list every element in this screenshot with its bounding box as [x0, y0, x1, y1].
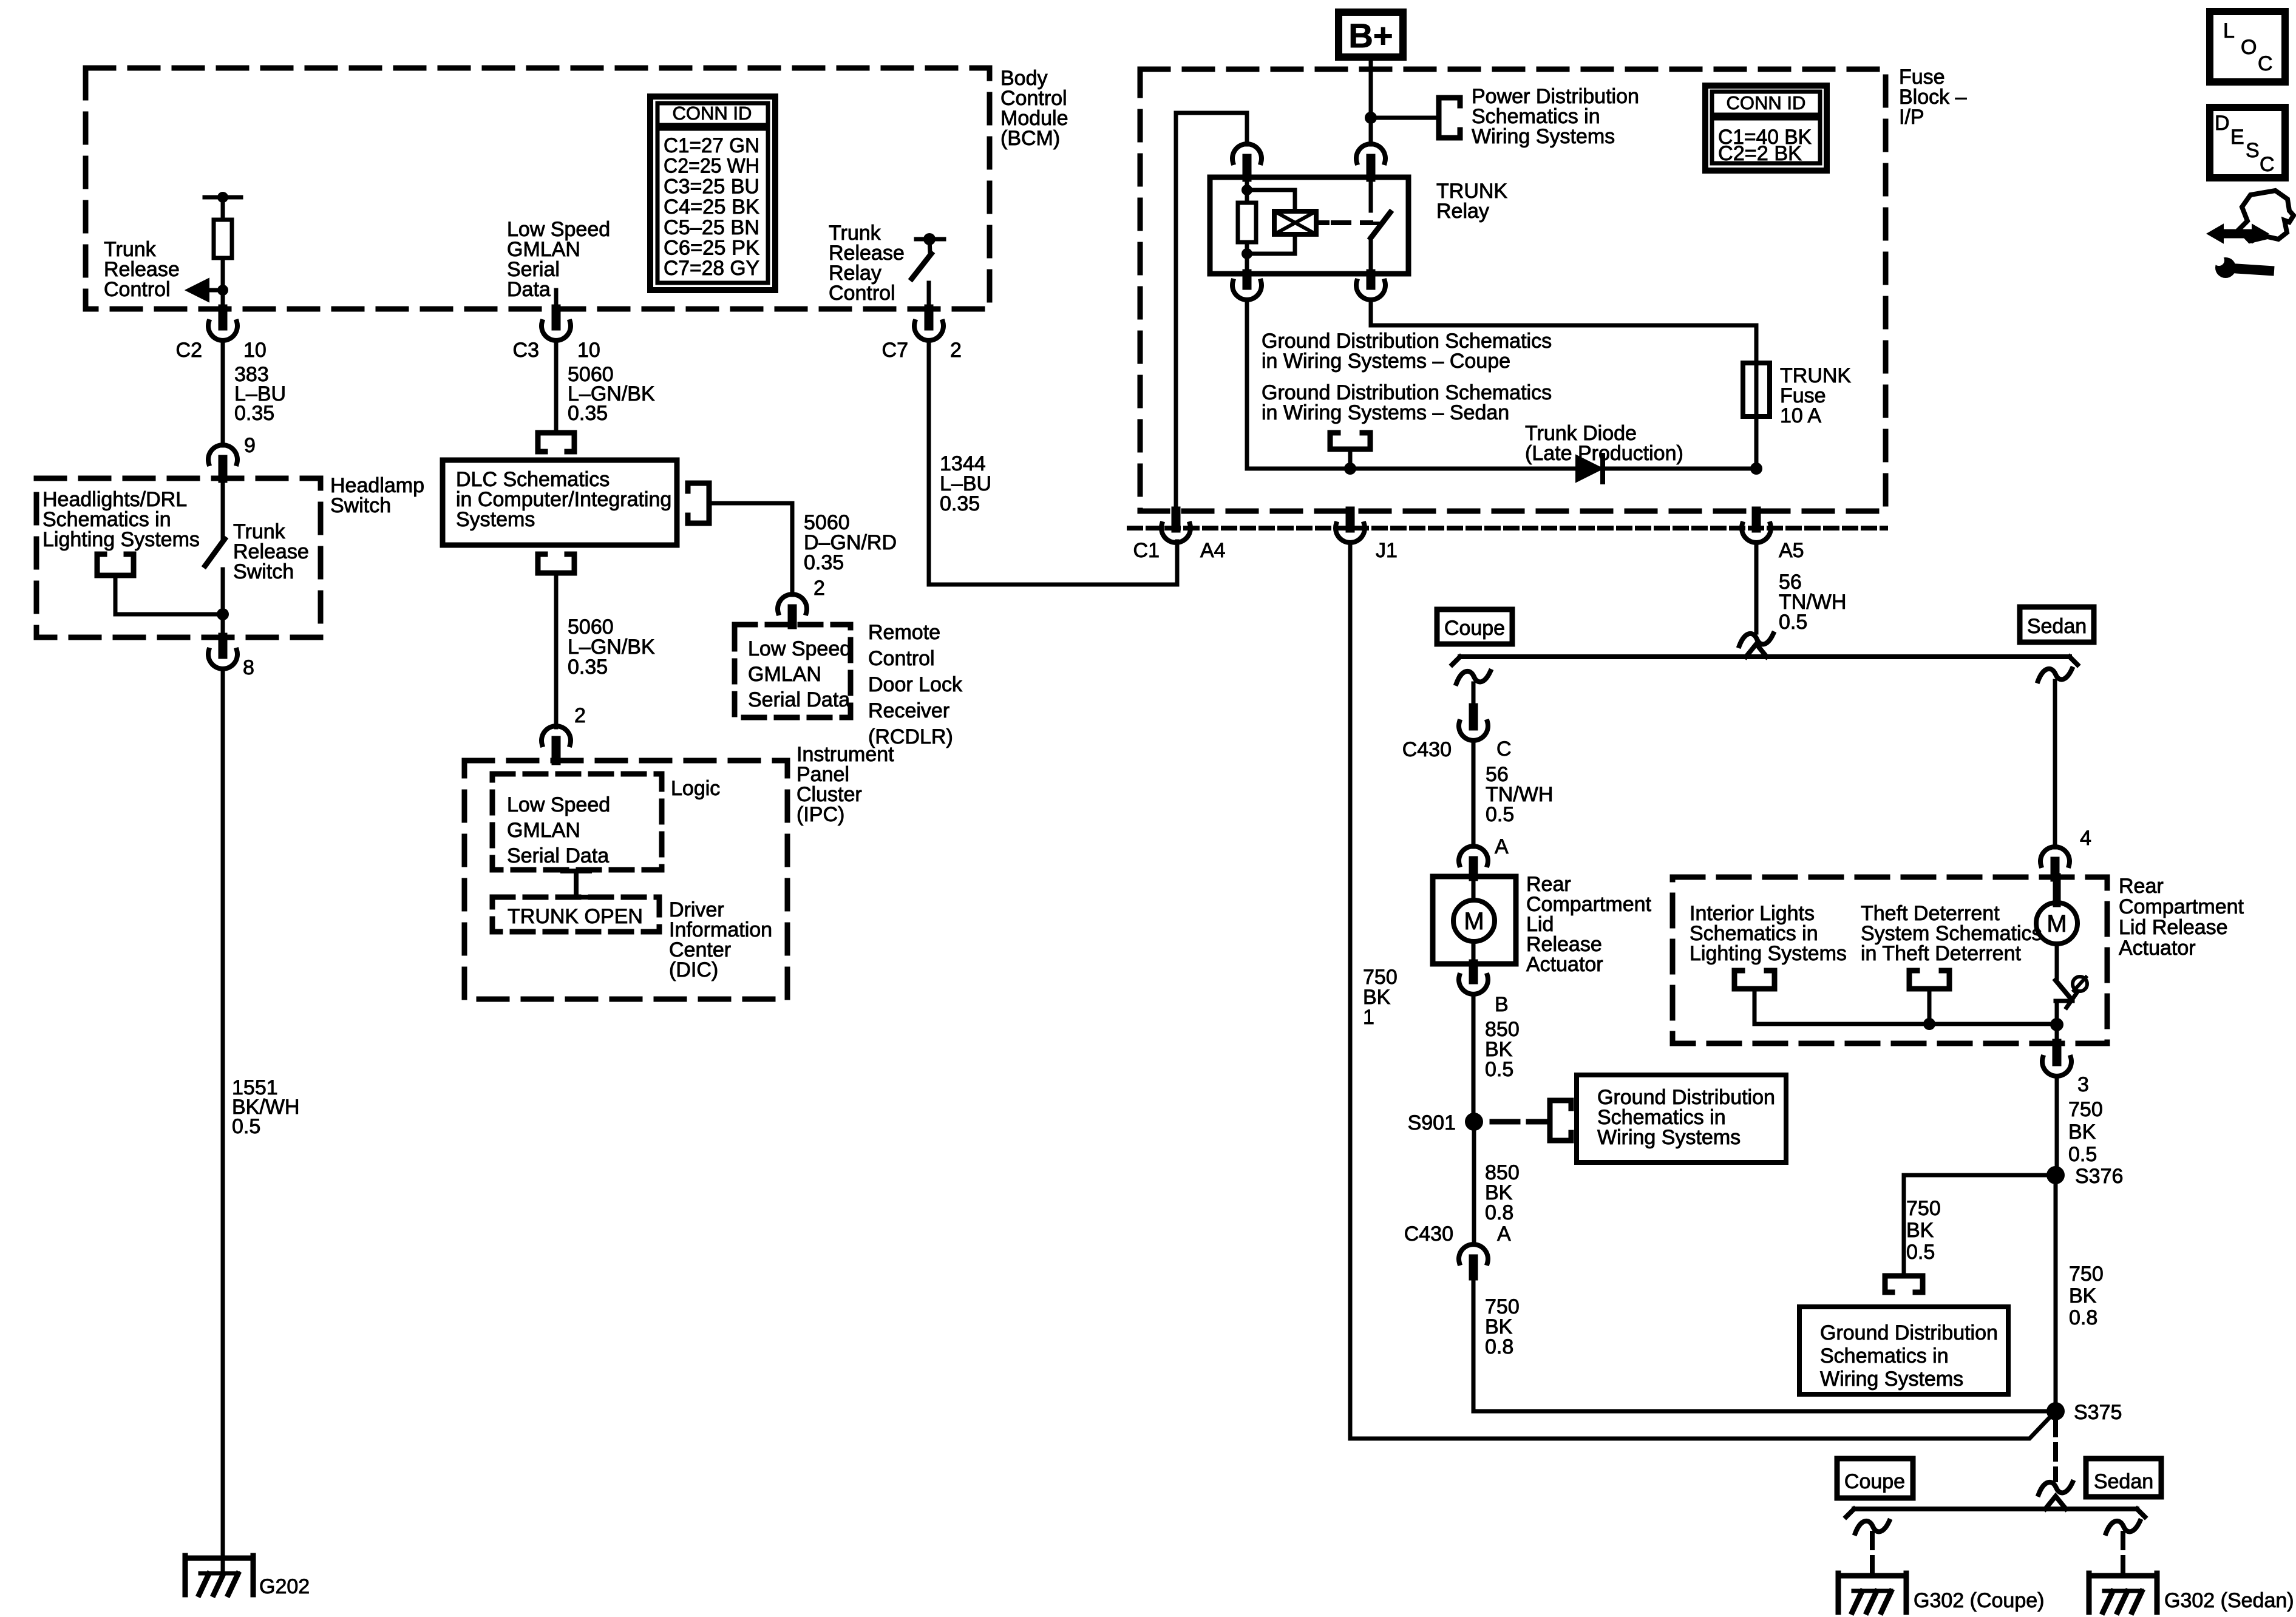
relay linkage (mechanical)	[1316, 220, 1327, 225]
svg-text:G202: G202	[259, 1575, 310, 1598]
svg-text:A: A	[1497, 1222, 1511, 1246]
svg-text:4: 4	[2080, 827, 2091, 850]
svg-text:Actuator: Actuator	[1526, 953, 1603, 976]
svg-text:S376: S376	[2075, 1165, 2123, 1188]
svg-text:CONN ID: CONN ID	[673, 103, 752, 124]
wire: theft deterrent stem	[1927, 989, 1932, 1024]
svg-text:A: A	[1495, 835, 1509, 858]
svg-text:750: 750	[2069, 1263, 2104, 1286]
wire: B+ to fuse block	[1369, 57, 1373, 118]
module box: Body Control Module (BCM)	[86, 68, 990, 309]
svg-text:BK: BK	[2069, 1284, 2097, 1307]
ref wire: S901 to ground distribution (dashed)	[1492, 1119, 1547, 1125]
wire 5060: C3 to DLC ref	[554, 341, 559, 429]
power symbol B+	[1339, 12, 1403, 57]
option split line (Coupe/Sedan top)	[1460, 654, 2070, 659]
table: fuse block CONN ID	[1705, 86, 1827, 171]
svg-text:3: 3	[2077, 1073, 2089, 1096]
wire: ground ref stem to J1 node	[1348, 449, 1353, 469]
svg-text:Switch: Switch	[330, 494, 391, 517]
svg-text:Control: Control	[104, 278, 171, 301]
connector: relay coil ground pin	[1243, 274, 1252, 285]
wire: sedan actuator ground bus	[1754, 1022, 2057, 1026]
relay coil resistor	[1245, 177, 1249, 203]
wire: BCM C3 internal	[554, 290, 559, 310]
connector: actuator pin 3	[2055, 1025, 2059, 1043]
svg-text:Wiring Systems: Wiring Systems	[1820, 1368, 1963, 1391]
wire: split to C430 pin C	[1472, 683, 1476, 708]
svg-text:0.8: 0.8	[1485, 1201, 1513, 1224]
label box: Coupe (bottom)	[1837, 1459, 1913, 1498]
svg-text:Schematics in: Schematics in	[1820, 1344, 1949, 1368]
off-page ref bracket: DLC right side	[688, 483, 709, 523]
relay switch	[1369, 177, 1373, 211]
svg-text:(DIC): (DIC)	[669, 958, 718, 981]
diode: trunk diode	[1576, 455, 1603, 482]
svg-text:Coupe: Coupe	[1444, 617, 1505, 640]
junction: theft stem node	[1923, 1018, 1935, 1030]
svg-text:Low Speed: Low Speed	[507, 793, 610, 816]
wire: S376 branch to ground distribution ref	[1904, 1175, 2056, 1275]
connector A5	[1752, 511, 1761, 528]
svg-text:BK: BK	[1906, 1219, 1934, 1242]
fuse block connector row (dotted)	[1129, 526, 1886, 531]
icon: vehicle service symbol (car, double arrow, wrench)	[2219, 229, 2257, 239]
svg-text:(Late Production): (Late Production)	[1525, 442, 1683, 465]
svg-text:0.5: 0.5	[1906, 1241, 1935, 1264]
svg-text:Ground Distribution: Ground Distribution	[1820, 1321, 1998, 1344]
svg-text:Lighting Systems: Lighting Systems	[42, 528, 200, 551]
ref box: Ground Distribution Schematics in Wiring Systems (bottom)	[1799, 1307, 2008, 1394]
svg-text:2: 2	[813, 577, 825, 600]
svg-text:8: 8	[243, 656, 254, 679]
fuse: TRUNK Fuse 10 A	[1743, 363, 1770, 416]
option split line (Coupe/Sedan bottom)	[1854, 1507, 2137, 1511]
svg-text:C7: C7	[882, 339, 908, 362]
connector: actuator pin 4 (sedan)	[2040, 847, 2070, 866]
svg-text:Rear: Rear	[2119, 875, 2164, 898]
wire 5060: DLC to IPC	[554, 573, 559, 727]
svg-text:0.5: 0.5	[2068, 1143, 2097, 1166]
icon: DESC reference box	[2210, 107, 2285, 178]
svg-text:C: C	[2260, 153, 2275, 176]
svg-text:Systems: Systems	[456, 508, 535, 531]
svg-text:Relay: Relay	[1436, 200, 1489, 223]
wire 850: S901 to C430 pin A	[1472, 1130, 1476, 1244]
svg-text:10: 10	[577, 339, 600, 362]
connector: actuator pin A	[1459, 846, 1488, 865]
ground G302 (Sedan)	[2089, 1573, 2157, 1579]
off-page ref bracket: ground distribution (S376)	[1885, 1276, 1923, 1292]
logic box (IPC)	[492, 774, 662, 870]
wire: J1 to S375	[1350, 543, 2056, 1439]
break: G302 coupe drop	[1855, 1521, 1889, 1533]
break: S375 drop	[2039, 1482, 2073, 1494]
svg-text:Lighting Systems: Lighting Systems	[1690, 942, 1847, 965]
svg-text:BK: BK	[2068, 1120, 2096, 1144]
wire 5060: DLC to RCDLR	[709, 503, 792, 595]
break: G302 sedan drop	[2106, 1521, 2140, 1533]
wire 56: A5 to option split	[1754, 543, 1759, 632]
svg-text:(BCM): (BCM)	[1000, 127, 1060, 150]
svg-text:0.5: 0.5	[1779, 611, 1807, 634]
ref box: Ground Distribution Schematics in Wiring Systems (S901)	[1577, 1075, 1786, 1162]
svg-text:2: 2	[950, 339, 962, 362]
module box: Fuse Block - I/P	[1140, 69, 1886, 511]
svg-text:S375: S375	[2074, 1401, 2122, 1424]
svg-text:L: L	[2223, 19, 2235, 42]
relay solenoid coil	[1247, 190, 1295, 211]
off-page ref bracket: S901 ground distribution	[1550, 1100, 1571, 1141]
svg-text:J1: J1	[1376, 539, 1398, 562]
indicator box: TRUNK OPEN	[492, 897, 659, 932]
wire 850: actuator to S901	[1472, 994, 1476, 1113]
connector: actuator pin B	[1469, 964, 1478, 980]
ref box: Low Speed GMLAN Serial Data (RCDLR)	[735, 625, 851, 717]
svg-text:0.8: 0.8	[1485, 1335, 1513, 1358]
svg-text:B+: B+	[1348, 16, 1393, 55]
wire 383: C2 to headlamp switch	[221, 341, 225, 446]
wire 56: C430 to actuator (coupe)	[1472, 741, 1476, 847]
wire: to G302 coupe (dashed)	[1870, 1533, 1875, 1573]
ref box: DLC Schematics in Computer/Integrating Systems	[443, 460, 677, 545]
connector: RCDLR pin 2	[778, 594, 807, 613]
svg-text:C430: C430	[1402, 738, 1452, 761]
label box: Coupe (top)	[1437, 609, 1512, 644]
svg-text:Wiring Systems: Wiring Systems	[1472, 125, 1615, 148]
junction: diode line to J1	[1344, 463, 1356, 475]
symbol: circle-slash (switch state)	[2073, 977, 2087, 991]
motor M (sedan)	[2053, 877, 2061, 903]
in-ref bracket: DLC bottom	[538, 554, 574, 573]
connector: relay switch supply pin	[1356, 144, 1385, 163]
switch: sedan actuator limit switch	[2056, 980, 2071, 998]
svg-text:C7=28 GY: C7=28 GY	[664, 257, 759, 280]
svg-text:C3: C3	[513, 339, 539, 362]
assembly box: sedan actuator / theft deterrent (dashed)	[1673, 877, 2107, 1043]
svg-text:O: O	[2241, 36, 2257, 59]
off-page ref bracket: ground distribution (sedan)	[1330, 433, 1370, 449]
svg-text:C1: C1	[1133, 539, 1160, 562]
off-page ref bracket: theft deterrent	[1909, 971, 1949, 989]
svg-text:0.5: 0.5	[232, 1115, 260, 1138]
ground G302 (Coupe)	[1838, 1573, 1906, 1579]
svg-text:0.35: 0.35	[568, 656, 608, 679]
svg-text:C2=2 BK: C2=2 BK	[1718, 142, 1802, 165]
svg-text:9: 9	[244, 434, 256, 457]
svg-text:Control: Control	[868, 647, 935, 670]
svg-text:I/P: I/P	[1899, 106, 1924, 129]
splice S901	[1465, 1113, 1483, 1131]
table: BCM CONN ID	[650, 97, 775, 290]
svg-text:S901: S901	[1408, 1111, 1456, 1134]
connector: IPC pin 2	[542, 726, 571, 745]
wire: B+ node down to relay pin	[1369, 118, 1373, 144]
svg-text:G302 (Sedan): G302 (Sedan)	[2164, 1589, 2294, 1612]
wire: to G302 sedan (dashed)	[2121, 1533, 2125, 1573]
svg-text:C: C	[1496, 737, 1512, 761]
svg-text:0.5: 0.5	[1486, 803, 1514, 826]
label box: Sedan (bottom)	[2086, 1459, 2161, 1497]
svg-text:Switch: Switch	[233, 560, 294, 583]
svg-text:(IPC): (IPC)	[796, 803, 844, 826]
actuator box: Rear Compartment Lid Release Actuator (coupe)	[1433, 876, 1516, 964]
svg-text:Remote: Remote	[868, 621, 940, 644]
wire: split to actuator pin 4	[2053, 681, 2057, 847]
motor M (coupe)	[1472, 876, 1476, 900]
svg-text:Control: Control	[829, 282, 895, 305]
svg-text:G302 (Coupe): G302 (Coupe)	[1914, 1589, 2044, 1612]
svg-text:C2: C2	[176, 339, 202, 362]
off-page ref bracket: headlights/DRL	[97, 554, 134, 575]
junction: diode line to fuse output	[1750, 463, 1762, 475]
svg-text:A5: A5	[1779, 539, 1804, 562]
wire: headlights ref to switch node	[115, 575, 219, 614]
driver: trunk release control output (resistor)	[205, 195, 241, 200]
svg-text:0.35: 0.35	[804, 551, 844, 574]
connector: relay switch output pin	[1367, 274, 1376, 285]
wire: B+ node to power distribution reference	[1371, 116, 1439, 120]
svg-text:in Wiring Systems – Sedan: in Wiring Systems – Sedan	[1262, 401, 1509, 424]
svg-text:C2=25 WH: C2=25 WH	[664, 155, 759, 178]
svg-text:Receiver: Receiver	[868, 699, 949, 722]
switch: trunk release relay control driver	[916, 237, 944, 242]
ground G202	[185, 1556, 253, 1561]
svg-text:0.5: 0.5	[1485, 1058, 1513, 1081]
svg-text:C: C	[2258, 52, 2273, 75]
junction: B+ node	[1365, 112, 1377, 124]
connector C430 pin C	[1469, 708, 1478, 726]
svg-text:Logic: Logic	[671, 777, 720, 800]
svg-text:2: 2	[574, 704, 586, 727]
svg-text:M: M	[2046, 910, 2067, 937]
svg-text:CONN ID: CONN ID	[1727, 92, 1806, 114]
svg-text:in Theft Deterrent: in Theft Deterrent	[1861, 942, 2022, 965]
svg-text:S: S	[2246, 139, 2260, 162]
svg-text:(RCDLR): (RCDLR)	[868, 725, 953, 748]
junction: switch to DRL feed	[217, 608, 229, 620]
svg-text:Lid Release: Lid Release	[2119, 916, 2228, 939]
connector J1	[1346, 511, 1355, 528]
svg-text:C1=27 GN: C1=27 GN	[664, 134, 759, 157]
splice S375	[2046, 1402, 2065, 1420]
wire 1551: switch to G202	[221, 669, 225, 1573]
svg-text:in Wiring Systems – Coupe: in Wiring Systems – Coupe	[1262, 350, 1510, 373]
svg-text:B: B	[1495, 993, 1509, 1016]
svg-text:C5–25 BN: C5–25 BN	[664, 216, 759, 239]
connector: relay coil supply pin	[1232, 144, 1262, 163]
break: coupe branch	[1456, 671, 1490, 683]
svg-text:GMLAN: GMLAN	[748, 663, 821, 686]
wire: S375 to bottom option split (dashed)	[2053, 1420, 2058, 1480]
relay box: TRUNK Relay	[1210, 177, 1408, 274]
splice S376	[2046, 1166, 2065, 1184]
connector C7 pin 2	[925, 309, 934, 326]
svg-text:Actuator: Actuator	[2119, 937, 2196, 960]
connector C2 pin 10	[219, 309, 228, 326]
icon: LOC reference box	[2210, 12, 2285, 82]
connector C3 pin 10	[552, 309, 561, 326]
svg-text:Door Lock: Door Lock	[868, 673, 963, 696]
svg-text:Serial Data: Serial Data	[507, 844, 609, 867]
wire: BCM C1 feed inside fuse block	[1176, 113, 1247, 509]
svg-text:E: E	[2230, 126, 2244, 149]
svg-text:10: 10	[243, 339, 267, 362]
link: logic to DIC indicator	[563, 869, 589, 873]
off-page ref bracket: interior lights	[1734, 971, 1775, 989]
svg-text:C3=25 BU: C3=25 BU	[664, 175, 759, 198]
svg-text:0.8: 0.8	[2069, 1306, 2097, 1329]
svg-text:Sedan: Sedan	[2027, 615, 2087, 638]
module box: Instrument Panel Cluster (IPC)	[464, 761, 787, 999]
wire: interior lights stem	[1753, 989, 1757, 1024]
svg-text:M: M	[1464, 908, 1484, 935]
svg-text:Data: Data	[507, 278, 551, 301]
svg-text:1: 1	[1363, 1006, 1374, 1029]
connector C1 pin A4	[1172, 511, 1181, 528]
svg-text:750: 750	[2068, 1098, 2103, 1121]
wire 1344: C7 to fuse block A4	[929, 341, 1177, 585]
wire: relay output to TRUNK fuse	[1371, 300, 1756, 469]
break: A5 harness split	[1739, 634, 1773, 646]
svg-text:10 A: 10 A	[1780, 404, 1821, 427]
svg-text:C4=25 BK: C4=25 BK	[664, 195, 759, 219]
svg-text:GMLAN: GMLAN	[507, 819, 580, 842]
svg-text:A4: A4	[1200, 539, 1226, 562]
svg-text:Low Speed: Low Speed	[748, 637, 851, 660]
svg-text:0.35: 0.35	[568, 402, 608, 425]
wire 750: S376 to S375	[2054, 1184, 2058, 1402]
svg-text:D: D	[2215, 112, 2230, 135]
in-ref bracket: DLC top	[538, 433, 574, 452]
wire 750: pin 3 to S376	[2055, 1076, 2059, 1167]
connector pin 8	[219, 637, 228, 654]
switch box: Headlamp Switch	[36, 478, 321, 637]
off-page ref bracket: power distribution	[1439, 98, 1460, 138]
svg-text:C6=25 PK: C6=25 PK	[664, 237, 759, 260]
svg-text:Serial Data: Serial Data	[748, 688, 850, 711]
svg-text:Compartment: Compartment	[2119, 895, 2244, 918]
svg-text:C430: C430	[1404, 1222, 1453, 1246]
svg-text:0.35: 0.35	[234, 402, 274, 425]
break: sedan branch	[2038, 669, 2072, 681]
junction: switch node	[2050, 1018, 2063, 1031]
svg-text:TRUNK OPEN: TRUNK OPEN	[508, 905, 643, 928]
wire 750: C430 to S375	[1473, 1276, 2046, 1411]
svg-text:0.35: 0.35	[940, 492, 980, 515]
svg-text:750: 750	[1906, 1197, 1941, 1220]
svg-text:Wiring Systems: Wiring Systems	[1597, 1126, 1741, 1149]
switch: trunk release switch	[221, 478, 225, 539]
svg-text:Coupe: Coupe	[1844, 1470, 1905, 1493]
wire: relay coil ground / trunk diode line	[1245, 300, 1249, 469]
svg-text:Sedan: Sedan	[2094, 1470, 2153, 1493]
label box: Sedan (top)	[2020, 607, 2094, 642]
